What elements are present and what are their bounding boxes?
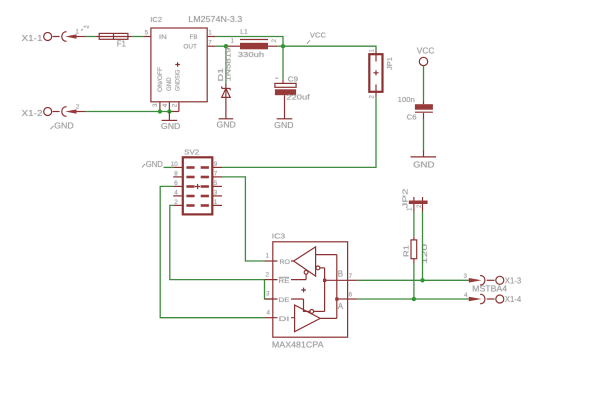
svg-text:220uf: 220uf <box>286 93 311 102</box>
svg-text:2: 2 <box>266 271 270 278</box>
wire SV2 pin2 to IC3 RE <box>170 205 265 279</box>
svg-text:LM2574N-3.3: LM2574N-3.3 <box>188 15 242 24</box>
junction JP2 on B net <box>420 278 424 282</box>
IC3 internal B net <box>316 266 348 311</box>
svg-text:4: 4 <box>174 190 178 197</box>
jumper JP1 <box>369 49 394 99</box>
IC3 DE pin with bubble <box>273 297 325 314</box>
wire IC3 B to X1-3 <box>357 279 469 281</box>
svg-text:GND: GND <box>217 121 236 130</box>
net label VCC <box>307 31 326 44</box>
svg-text:2: 2 <box>171 103 178 107</box>
connector X1-1 <box>22 29 86 43</box>
wire JP1 to SV2 pin9 <box>222 97 376 167</box>
svg-text:GND: GND <box>166 77 173 91</box>
svg-text:2: 2 <box>271 39 278 43</box>
svg-text:4: 4 <box>464 292 468 299</box>
svg-text:JP1: JP1 <box>385 57 394 70</box>
capacitor C9 220uf <box>275 46 311 119</box>
svg-text:GND: GND <box>54 122 74 131</box>
IC3 RE pin with bubble <box>273 270 308 285</box>
ground under C9 <box>274 119 293 130</box>
IC3 origin cross <box>301 288 306 293</box>
svg-text:ON/OFF: ON/OFF <box>157 67 164 92</box>
svg-text:8: 8 <box>174 171 178 178</box>
wire IC3 A to X1-4 <box>357 298 469 300</box>
wire X1-1 to F1 <box>86 36 96 38</box>
svg-text:C9: C9 <box>288 74 299 83</box>
ground under D1 <box>217 119 236 130</box>
svg-text:SV2: SV2 <box>184 147 199 156</box>
svg-text:9: 9 <box>214 161 218 168</box>
svg-text:120: 120 <box>420 244 429 264</box>
svg-text:IC2: IC2 <box>150 15 162 24</box>
pin header SV2 <box>171 147 222 214</box>
wire IC2 FB over L1 <box>207 37 283 47</box>
svg-text:5: 5 <box>214 180 218 187</box>
svg-text:7: 7 <box>349 273 353 280</box>
resistor R1 120 <box>401 240 429 264</box>
junction at D1 <box>224 44 228 48</box>
net label GND at SV2 <box>142 160 173 169</box>
junction at IC2 pin3 <box>158 109 162 113</box>
svg-text:MAX481CPA: MAX481CPA <box>272 339 324 349</box>
svg-text:1N5819: 1N5819 <box>223 48 232 82</box>
svg-text:3: 3 <box>464 273 468 280</box>
net label +V <box>81 24 90 30</box>
wire JP2 pin2 to B net <box>422 212 424 281</box>
RS485 transceiver IC3 MAX481CPA <box>265 232 358 350</box>
svg-text:1: 1 <box>231 37 235 44</box>
svg-text:1: 1 <box>369 49 376 53</box>
svg-text:330uh: 330uh <box>238 50 264 59</box>
jumper JP2 <box>401 189 428 212</box>
wire VCC net to JP1 <box>283 46 376 50</box>
svg-text:6: 6 <box>174 180 178 187</box>
svg-text:3: 3 <box>152 103 159 107</box>
svg-text:X1-1: X1-1 <box>22 33 43 43</box>
wire L1 to junction <box>277 45 283 47</box>
svg-text:DE: DE <box>279 297 291 304</box>
svg-text:4: 4 <box>162 103 169 107</box>
svg-text:4: 4 <box>267 309 271 316</box>
svg-text:GND: GND <box>413 160 434 170</box>
wire SV2 pin6 to IC3 DI <box>160 186 264 317</box>
svg-text:C6: C6 <box>407 112 417 121</box>
svg-text:R1: R1 <box>401 245 410 257</box>
wire SV2 pin7 to IC3 RO <box>222 177 265 261</box>
op-amp U IC2 LM2574N-3.3 <box>144 15 243 107</box>
IC2 bottom pins <box>160 102 179 112</box>
wire VCC to C6 <box>423 66 425 105</box>
wire C6 to ground <box>423 119 425 157</box>
ground under C6 <box>411 157 437 170</box>
junction at IC2 pin4 <box>167 109 171 113</box>
svg-text:L1: L1 <box>240 27 248 36</box>
svg-text:GND: GND <box>146 160 163 169</box>
IC3 receiver amp <box>273 247 316 276</box>
IC3 driver amp <box>273 305 337 332</box>
svg-text:VCC: VCC <box>310 31 326 40</box>
svg-text:1: 1 <box>214 199 218 206</box>
svg-text:X1-2: X1-2 <box>22 108 43 118</box>
wire RE to DE tie <box>265 280 273 299</box>
svg-text:100n: 100n <box>398 95 415 104</box>
junction at C9 <box>281 44 285 48</box>
svg-text:7: 7 <box>214 171 218 178</box>
svg-text:GND: GND <box>161 122 181 131</box>
diode D1 1N5819 <box>216 46 233 119</box>
svg-text:FB: FB <box>190 34 198 41</box>
inductor L1 330uh <box>228 27 278 59</box>
wire X1-2 to IC2 GND pins <box>86 111 170 113</box>
wire F1 to IC2 <box>132 36 145 38</box>
fuse F1 <box>96 33 132 48</box>
svg-text:GNDSIG: GNDSIG <box>175 70 182 91</box>
svg-text:OUT: OUT <box>183 43 197 50</box>
svg-text:5: 5 <box>145 30 149 37</box>
wire JP2 pin1 to R1 <box>413 212 415 240</box>
ground under IC2 <box>161 112 181 132</box>
svg-text:RO: RO <box>280 259 291 266</box>
svg-text:6: 6 <box>349 291 353 298</box>
supply VCC <box>417 46 435 65</box>
junction R1 on A net <box>412 297 416 301</box>
svg-text:2: 2 <box>174 199 178 206</box>
svg-text:JP2: JP2 <box>401 189 410 209</box>
svg-text:X1-3: X1-3 <box>505 275 522 285</box>
svg-text:GND: GND <box>274 121 293 130</box>
wire R1 to A net <box>413 263 415 299</box>
svg-text:2: 2 <box>76 103 80 110</box>
svg-text:B: B <box>338 270 343 279</box>
svg-text:F1: F1 <box>117 40 127 49</box>
connector X1-3 <box>464 273 522 285</box>
net label GND at X1-2 <box>50 122 73 131</box>
connector X1-4 <box>464 292 522 304</box>
capacitor C6 100n <box>398 95 433 121</box>
svg-text:MSTBA4: MSTBA4 <box>472 283 507 293</box>
svg-text:RE: RE <box>279 278 291 285</box>
svg-text:DI: DI <box>279 316 290 323</box>
svg-text:2: 2 <box>416 204 423 208</box>
svg-text:+v: +v <box>83 24 89 30</box>
svg-text:2: 2 <box>369 95 376 99</box>
svg-text:1: 1 <box>407 207 414 211</box>
svg-text:7: 7 <box>208 39 212 46</box>
IC3 internal A net <box>316 255 348 319</box>
svg-text:1: 1 <box>266 253 270 260</box>
svg-text:A: A <box>338 302 344 311</box>
svg-text:1: 1 <box>75 29 79 36</box>
svg-text:3: 3 <box>266 291 270 298</box>
svg-text:VCC: VCC <box>417 46 435 55</box>
wire IC2 OUT <box>207 45 228 47</box>
svg-text:IN: IN <box>159 34 167 41</box>
svg-text:IC3: IC3 <box>272 232 285 241</box>
svg-text:1: 1 <box>208 30 212 37</box>
connector X1-2 <box>22 103 86 118</box>
svg-text:X1-4: X1-4 <box>505 294 522 304</box>
svg-text:3: 3 <box>214 190 218 197</box>
